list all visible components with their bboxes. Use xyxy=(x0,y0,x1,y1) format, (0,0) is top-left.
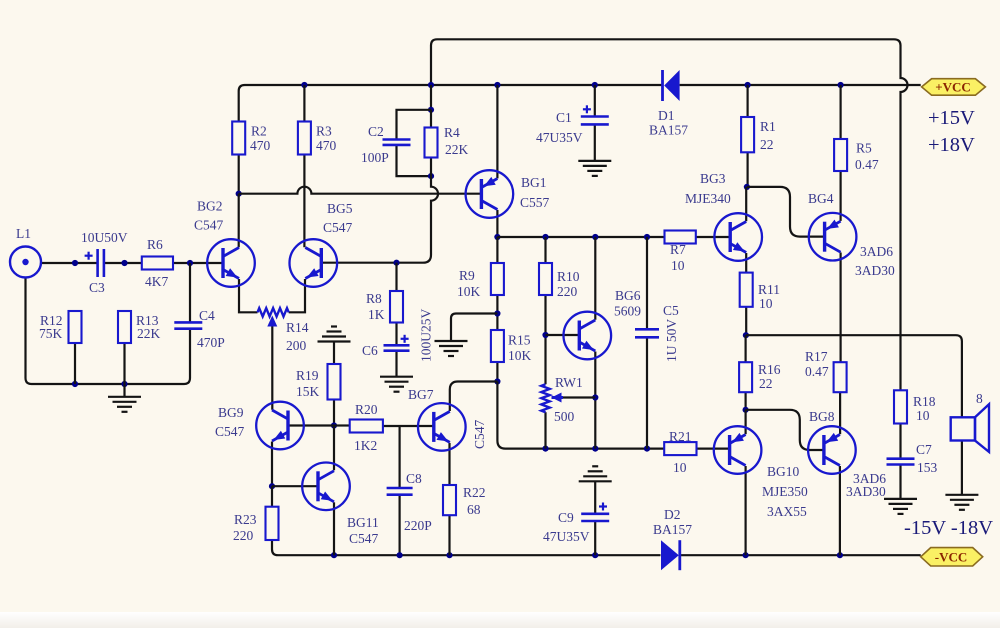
capacitor C9 xyxy=(581,512,609,515)
wire R4 top lead xyxy=(430,110,432,128)
resistor R23 xyxy=(266,507,279,540)
svg-text:C1: C1 xyxy=(556,110,572,125)
wire S-bend from junction to BG8 base xyxy=(746,410,824,450)
resistor R6 xyxy=(142,257,173,270)
resistor R22 xyxy=(443,485,456,515)
wire BG8 collector lead down xyxy=(839,466,841,555)
resistor R8 xyxy=(390,291,403,323)
svg-text:+VCC: +VCC xyxy=(935,80,971,95)
wire RW1 bottom lead xyxy=(544,412,546,448)
resistor R7 xyxy=(665,231,696,244)
ground C7 xyxy=(884,498,917,500)
node junction R13/C4 tap xyxy=(121,260,127,266)
wire R5 top lead xyxy=(839,85,841,139)
svg-text:R15: R15 xyxy=(508,333,531,348)
svg-text:R1: R1 xyxy=(760,119,776,134)
node junction BG9 base / R19 / R20 / BG11 collector xyxy=(331,422,337,428)
wire BG6 collector lead up xyxy=(594,237,596,320)
node junction R10 top on mid bus xyxy=(542,234,548,240)
transistor BG1 xyxy=(466,170,514,218)
wire C5 top lead xyxy=(646,237,648,329)
svg-text:R18: R18 xyxy=(913,394,936,409)
wire BG10 collector lead down xyxy=(744,466,746,555)
svg-text:C4: C4 xyxy=(199,308,215,323)
svg-text:R10: R10 xyxy=(557,269,580,284)
svg-text:470: 470 xyxy=(250,138,271,153)
wire C9 bottom lead xyxy=(594,521,596,555)
svg-text:470: 470 xyxy=(316,138,337,153)
svg-text:BG9: BG9 xyxy=(218,405,244,420)
wire R8 top lead to BG5 base wire xyxy=(395,263,397,291)
speaker LS 8ohm xyxy=(951,404,989,452)
node junction C5 top on mid bus xyxy=(644,234,650,240)
capacitor C6 xyxy=(384,344,410,347)
svg-text:RW1: RW1 xyxy=(555,375,583,390)
wire BG6 base lead xyxy=(546,334,580,336)
wire BG7 emitter lead down to R22 xyxy=(448,443,450,485)
capacitor C3 xyxy=(96,249,99,277)
svg-text:-VCC: -VCC xyxy=(935,550,968,565)
node junction BG11 emitter on -VCC bus xyxy=(331,552,337,558)
node junction RW1 bottom on lower bus xyxy=(542,446,548,452)
node junction C2/R4 top stub xyxy=(428,107,434,113)
node junction BG10 collector on -VCC bus xyxy=(743,552,749,558)
wire BG6 emitter lead down xyxy=(594,352,596,449)
svg-text:R17: R17 xyxy=(805,349,828,364)
svg-text:3AD30: 3AD30 xyxy=(846,484,886,499)
svg-text:C6: C6 xyxy=(362,343,378,358)
svg-text:0.47: 0.47 xyxy=(855,157,879,172)
wire ground stem below input bus xyxy=(123,384,125,397)
diode D2 xyxy=(661,540,680,570)
svg-text:22K: 22K xyxy=(445,142,469,157)
wire BG5 emitter lead down to R14 right xyxy=(289,279,305,312)
svg-text:10K: 10K xyxy=(508,348,532,363)
power flag -VCC xyxy=(921,548,983,566)
wire BG4 collector down through output wire to R17 xyxy=(839,253,841,363)
svg-text:MJE350: MJE350 xyxy=(762,484,808,499)
wire C1 bottom lead to ground xyxy=(594,124,596,160)
wire C4 bottom lead down to ground bus xyxy=(184,329,190,384)
svg-text:C547: C547 xyxy=(472,419,487,449)
svg-text:BA157: BA157 xyxy=(649,123,688,138)
wire BG1 emitter lead up to rail xyxy=(496,85,498,178)
wire R5 bottom to BG4 emitter xyxy=(839,171,841,221)
wire speaker bottom to ground xyxy=(961,441,963,495)
wire output wire y=335.2 to speaker corner xyxy=(746,335,962,417)
svg-text:R20: R20 xyxy=(355,402,378,417)
node junction R22 on -VCC bus xyxy=(446,552,452,558)
svg-text:3AX55: 3AX55 xyxy=(767,504,807,519)
wire top-left corner down to node column x=431 xyxy=(431,39,437,85)
resistor R10 xyxy=(539,263,552,295)
svg-text:3AD30: 3AD30 xyxy=(855,263,895,278)
wire R7 right to BG3 base xyxy=(696,236,730,238)
svg-text:R3: R3 xyxy=(316,124,332,139)
potentiometer RW1 body xyxy=(541,384,549,412)
wire top-right corner down x=900.5 with hop over +VCC rail xyxy=(894,39,908,335)
wire R19 bottom to BG9 base node xyxy=(333,400,335,426)
wire S-bend from node to BG4 base xyxy=(747,187,825,237)
wire R2 bottom to collector node xyxy=(238,155,240,194)
svg-text:+15V: +15V xyxy=(928,107,975,129)
node junction C2/R4 bottom stub xyxy=(428,173,434,179)
capacitor C2 xyxy=(383,138,411,141)
node junction R12 bottom on ground bus xyxy=(72,381,78,387)
svg-text:MJE340: MJE340 xyxy=(685,191,731,206)
wire R18 bottom to C7 xyxy=(899,424,901,459)
wire BG9 base lead xyxy=(288,424,334,426)
wire R1 bottom to BG3 collector node xyxy=(746,152,748,187)
transistor BG2 xyxy=(207,239,255,287)
wire R10 bottom to RW1 top xyxy=(544,295,546,384)
wire R4 bottom lead xyxy=(430,158,432,177)
transistor BG5 xyxy=(290,239,338,287)
wire C8 top lead xyxy=(399,426,401,488)
wire C8 bottom lead to -VCC bus xyxy=(399,495,401,556)
diode D1 xyxy=(664,70,679,101)
svg-text:47U35V: 47U35V xyxy=(536,130,583,145)
resistor R4 xyxy=(425,128,438,158)
svg-text:C557: C557 xyxy=(520,195,550,210)
inductor-jack L1 xyxy=(10,247,41,278)
wire top feedback rail y=39 xyxy=(437,38,894,40)
svg-text:R8: R8 xyxy=(366,291,382,306)
svg-text:75K: 75K xyxy=(39,326,63,341)
svg-text:D2: D2 xyxy=(664,507,681,522)
svg-text:500: 500 xyxy=(554,409,575,424)
wire node y=193.7 to BG1 base with hop over R3 column xyxy=(239,187,482,194)
svg-text:C9: C9 xyxy=(558,510,574,525)
capacitor C7 xyxy=(887,457,915,460)
svg-text:1K: 1K xyxy=(368,307,385,322)
node junction BG6 base tap xyxy=(542,332,548,338)
wire BG3 collector lead xyxy=(745,187,747,221)
svg-text:BA157: BA157 xyxy=(653,522,692,537)
svg-text:BG2: BG2 xyxy=(197,199,223,214)
resistor R11 xyxy=(740,273,753,307)
transistor BG8 xyxy=(808,426,856,474)
wire BG11 collector lead up xyxy=(333,426,335,471)
svg-text:R4: R4 xyxy=(444,125,460,140)
svg-text:R22: R22 xyxy=(463,485,486,500)
svg-text:R11: R11 xyxy=(758,282,780,297)
wire C5 bottom lead xyxy=(646,337,648,448)
wire R3 bottom to BG5 collector xyxy=(303,155,305,248)
svg-text:100P: 100P xyxy=(361,150,389,165)
capacitor C5 xyxy=(635,328,659,331)
svg-text:3AD6: 3AD6 xyxy=(860,244,893,259)
svg-text:8: 8 xyxy=(976,391,983,406)
resistor R18 xyxy=(894,390,907,423)
svg-text:BG4: BG4 xyxy=(808,191,834,206)
svg-text:10: 10 xyxy=(759,296,773,311)
transistor BG4 xyxy=(809,213,857,261)
wire C3 to R6 xyxy=(104,262,142,264)
wire -VCC bus right of D2 xyxy=(681,554,921,556)
svg-text:R23: R23 xyxy=(234,512,257,527)
capacitor C1 xyxy=(581,115,609,118)
transistor BG6 xyxy=(564,312,612,360)
wire R19 ground stem xyxy=(333,342,335,365)
wire R16 bottom to BG10 emitter junction xyxy=(744,392,746,410)
transistor BG7 xyxy=(418,403,466,451)
svg-text:BG5: BG5 xyxy=(327,201,353,216)
svg-text:100U25V: 100U25V xyxy=(419,309,434,362)
resistor R17 xyxy=(834,362,847,392)
transistor BG3 xyxy=(714,213,762,261)
transistor BG11 xyxy=(302,463,350,511)
node junction BG6 collector on mid bus xyxy=(592,234,598,240)
svg-text:4K7: 4K7 xyxy=(145,274,168,289)
trimmer resistor R14 body xyxy=(258,308,289,316)
wire BG11 base lead xyxy=(272,485,318,487)
ground C1 xyxy=(578,160,611,162)
wire C2 bottom to stub xyxy=(397,145,432,176)
svg-text:22K: 22K xyxy=(137,326,161,341)
wire column down from BG7 collector node to lower bus corner xyxy=(497,382,664,449)
svg-text:C5: C5 xyxy=(663,303,679,318)
wire R11 bottom to output node xyxy=(745,307,747,335)
svg-text:470P: 470P xyxy=(197,335,225,350)
ground R19 (inverted) xyxy=(318,340,351,342)
wire node to R20 left xyxy=(334,424,350,426)
node junction R5 top on +VCC rail xyxy=(838,82,844,88)
svg-text:BG3: BG3 xyxy=(700,171,726,186)
wire R8 bottom to C6 xyxy=(395,323,397,346)
wire R6 to BG2 base xyxy=(173,262,223,264)
svg-text:200: 200 xyxy=(286,338,307,353)
svg-text:BG7: BG7 xyxy=(408,387,434,402)
node junction BG1 collector / R9 bus xyxy=(494,234,500,240)
wire mid bus y=237 from BG1 collector to R7 xyxy=(497,236,664,238)
svg-text:BG11: BG11 xyxy=(347,515,379,530)
wire BG7 collector lead up and over xyxy=(450,382,498,412)
svg-text:R16: R16 xyxy=(758,362,781,377)
node junction C8 on -VCC bus xyxy=(397,552,403,558)
wire BG2 collector lead xyxy=(238,194,240,248)
node junction R16 / BG10 emitter / BG8 base wire xyxy=(743,407,749,413)
resistor R12 xyxy=(69,311,82,343)
wire R20 right to BG7 base xyxy=(383,425,434,427)
svg-text:22: 22 xyxy=(759,376,773,391)
node junction BG1 emitter on +VCC rail xyxy=(494,82,500,88)
svg-text:BG1: BG1 xyxy=(521,175,547,190)
wire column x=431 down with hop over base wire, corner to BG5 base xyxy=(322,176,439,263)
svg-text:153: 153 xyxy=(917,460,938,475)
svg-text:R14: R14 xyxy=(286,320,309,335)
wire R12 bottom lead xyxy=(74,343,76,384)
wire R22 bottom lead xyxy=(448,515,450,555)
svg-text:10K: 10K xyxy=(457,284,481,299)
ground R9-R15 node xyxy=(435,340,468,342)
node junction C1 top on +VCC rail xyxy=(592,82,598,88)
svg-text:1K2: 1K2 xyxy=(354,438,377,453)
svg-text:D1: D1 xyxy=(658,108,675,123)
svg-text:220P: 220P xyxy=(404,518,432,533)
resistor R19 xyxy=(328,364,341,400)
svg-text:R7: R7 xyxy=(670,242,686,257)
ground input xyxy=(108,396,141,398)
node junction x=431 on +VCC rail xyxy=(428,82,434,88)
wire BG11 emitter lead down xyxy=(333,502,335,555)
svg-text:R9: R9 xyxy=(459,268,475,283)
svg-text:47U35V: 47U35V xyxy=(543,529,590,544)
svg-text:15K: 15K xyxy=(296,384,320,399)
wire C7 bottom to ground xyxy=(899,465,901,499)
svg-text:220: 220 xyxy=(557,284,578,299)
power flag +VCC xyxy=(922,79,986,96)
svg-text:C547: C547 xyxy=(349,531,379,546)
svg-text:L1: L1 xyxy=(16,226,31,241)
resistor R21 xyxy=(664,442,696,455)
resistor R15 xyxy=(491,330,504,362)
wire R9 bottom to R15 top junction xyxy=(496,295,498,330)
svg-text:C3: C3 xyxy=(89,280,105,295)
ground C6 xyxy=(380,376,413,378)
wire R1 top lead xyxy=(746,85,748,117)
node junction BG6 emitter column on lower bus xyxy=(592,446,598,452)
svg-text:+18V: +18V xyxy=(928,134,975,156)
wire column x=431 rail to C2/R4 top stub xyxy=(430,85,432,110)
wire R14 wiper to BG9 collector xyxy=(271,325,273,410)
wire BG1 collector lead down xyxy=(496,210,498,237)
svg-text:C547: C547 xyxy=(323,220,353,235)
resistor R9 xyxy=(491,263,504,295)
node junction R1 top on +VCC rail xyxy=(745,82,751,88)
node junction output node R11/R16/output wire xyxy=(743,332,749,338)
D1 cathode bar xyxy=(661,70,664,101)
node junction BG9 emitter / BG11 base xyxy=(269,483,275,489)
wire R15 bottom to BG7 collector node xyxy=(496,362,498,382)
svg-text:R21: R21 xyxy=(669,429,692,444)
svg-text:10: 10 xyxy=(671,258,685,273)
wire BG3 emitter lead down to R11 xyxy=(745,253,747,273)
svg-text:C7: C7 xyxy=(916,442,932,457)
wire R23 bottom corner into -VCC bus xyxy=(272,540,661,555)
node junction RW1 wiper arm xyxy=(592,394,598,400)
trimmer R14 wiper arrow xyxy=(267,316,277,327)
resistor R20 xyxy=(350,420,383,433)
wire RW1 wiper arm horizontal xyxy=(563,396,595,398)
ground C9 (inverted) xyxy=(579,480,612,482)
ground speaker xyxy=(945,494,978,496)
svg-text:R6: R6 xyxy=(147,237,163,252)
svg-text:10: 10 xyxy=(916,408,930,423)
wire R21 right to BG10 base xyxy=(697,448,730,450)
svg-text:BG8: BG8 xyxy=(809,409,835,424)
wire R16 top lead xyxy=(744,335,746,362)
svg-text:BG6: BG6 xyxy=(615,288,641,303)
node junction R3 top xyxy=(301,82,307,88)
wire L1 bottom lead down and bottom ground bus y=384 xyxy=(26,278,185,385)
resistor R1 xyxy=(741,117,754,152)
resistor R13 xyxy=(118,311,131,343)
wire C6 bottom to ground xyxy=(395,351,397,377)
svg-text:C2: C2 xyxy=(368,124,384,139)
wire C9 ground stem to top plate xyxy=(594,481,596,514)
node junction R12 top tap xyxy=(72,260,78,266)
wire R17 bottom to BG8 emitter xyxy=(839,392,841,434)
RW1 wiper arrow xyxy=(552,396,564,399)
capacitor C4 xyxy=(174,321,202,324)
wire C1 top lead xyxy=(594,85,596,117)
svg-text:5609: 5609 xyxy=(614,304,641,319)
node junction R8 top on BG5 base wire xyxy=(393,260,399,266)
resistor R5 xyxy=(834,139,847,171)
node junction R15 bottom / BG7 collector xyxy=(494,378,500,384)
node junction BG8 collector on -VCC bus xyxy=(837,552,843,558)
resistor R16 xyxy=(739,362,752,392)
node junction R13 bottom / ground stem xyxy=(121,381,127,387)
wire R13 bottom lead xyxy=(123,343,125,384)
resistor R3 xyxy=(298,122,311,155)
wire feedback column x=900.5 from output crossing down to R18 xyxy=(899,335,901,390)
svg-text:220: 220 xyxy=(233,528,254,543)
node junction R1 / BG3 collector / BG4 base wire xyxy=(744,184,750,190)
node junction BG2 collector / base wire to BG1 xyxy=(236,191,242,197)
svg-text:BG10: BG10 xyxy=(767,464,800,479)
transistor BG10 xyxy=(714,426,762,474)
wire BG2 emitter lead down to R14 left xyxy=(239,279,258,312)
wire stub to left ground with corner xyxy=(451,314,497,342)
svg-text:C547: C547 xyxy=(194,218,224,233)
svg-text:R5: R5 xyxy=(856,141,872,156)
capacitor C8 xyxy=(387,487,413,490)
wire top stub to C2 column xyxy=(397,110,432,140)
svg-text:-15V -18V: -15V -18V xyxy=(904,517,993,539)
node junction C9 on -VCC bus xyxy=(592,552,598,558)
svg-text:22: 22 xyxy=(760,137,774,152)
wire +VCC rail y=85 left section xyxy=(239,85,662,122)
wire R3 top lead xyxy=(303,85,305,122)
wire BG9 emitter lead down xyxy=(271,442,273,487)
node junction R9/R15/ground stub xyxy=(494,310,500,316)
svg-text:10: 10 xyxy=(673,460,687,475)
wire R23 top lead xyxy=(271,486,273,507)
wire BG10 emitter lead up xyxy=(744,410,746,434)
transistor BG9 xyxy=(256,402,304,450)
wire C4 top lead xyxy=(189,263,191,322)
svg-text:68: 68 xyxy=(467,502,481,517)
node junction C5 bottom on lower bus xyxy=(644,446,650,452)
wire R10 top lead xyxy=(544,237,546,263)
svg-text:10U50V: 10U50V xyxy=(81,230,128,245)
svg-text:R2: R2 xyxy=(251,124,267,139)
svg-text:0.47: 0.47 xyxy=(805,364,829,379)
node junction C4 column top xyxy=(187,260,193,266)
wire input net y=263 from L1 to C3 xyxy=(41,262,98,264)
svg-text:R19: R19 xyxy=(296,368,319,383)
resistor R2 xyxy=(232,122,245,155)
svg-text:C547: C547 xyxy=(215,424,245,439)
svg-text:C8: C8 xyxy=(406,471,422,486)
wire +VCC rail y=85 right section from D1 to +VCC flag xyxy=(680,84,921,86)
wire R9 top lead xyxy=(496,237,498,263)
svg-text:1U 50V: 1U 50V xyxy=(664,319,679,362)
